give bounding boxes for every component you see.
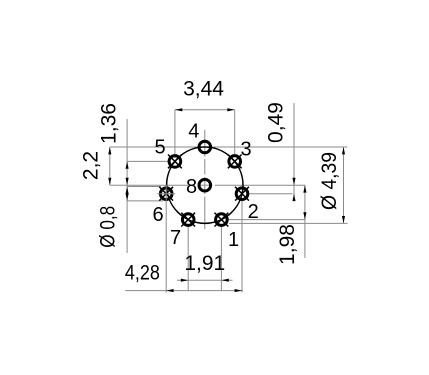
svg-text:2: 2 [248,201,259,223]
wire: vertical dimension line for 1,36 and diameter 0,8 [126,119,128,253]
wire: pin6 top tangent extension [127,186,161,188]
wire: 0,49 vertical dimension line [293,103,295,199]
wire: pin7 vertical extension for 1,91 [187,227,189,291]
pin 4 [199,141,211,153]
wire: vertical main centerline [204,130,206,157]
wire: 3,44 horizontal dimension line [175,109,235,111]
pin 5 [168,155,182,169]
svg-text:4,28: 4,28 [125,262,160,285]
wire: horizontal extension line pin3/5 row left [127,160,170,162]
wire: pin6 vertical extension for 4,28 [165,202,167,293]
svg-text:8: 8 [186,176,197,198]
pin 6 [157,185,175,203]
dimension 1,98 arrows [303,185,306,192]
dimension 0,49 arrows outside [292,178,295,185]
svg-text:0,49: 0,49 [265,102,288,143]
dimension 4,39 arrows [342,147,345,154]
wire: diameter 4,39 vertical dimension line [343,147,345,223]
wire: horizontal extension line pin4 row [110,146,348,148]
svg-text:1: 1 [228,229,239,251]
wire: pin6 bottom tangent extension [127,200,163,202]
svg-text:3,44: 3,44 [183,78,224,101]
dimension 1,36 arrows [126,161,129,168]
svg-text:1,36: 1,36 [98,103,121,144]
wire: pin1/7 row right extension [229,219,306,221]
wire: circle bottom tangent extension [229,222,348,224]
dimension 2,2 arrows [108,147,111,154]
svg-text:Ø 0,8: Ø 0,8 [96,206,119,248]
svg-text:7: 7 [170,227,181,249]
wire: pin2 vertical extension for 4,28 [241,201,243,293]
svg-text:1,91: 1,91 [184,252,225,275]
svg-text:2,2: 2,2 [80,151,103,180]
svg-text:4: 4 [188,121,199,143]
pin 2 [235,187,249,201]
pin 8 center [199,179,211,191]
wire: pin1 vertical extension for 1,91 [220,227,222,291]
wire: horizontal centerline center row [110,184,195,186]
svg-text:6: 6 [152,204,163,226]
wire: 1,91 horizontal dimension line [177,279,233,281]
svg-text:5: 5 [154,137,165,159]
wire: 3,44 left extension line [174,110,176,158]
dimension 3,44 arrows [175,108,182,111]
dimension 4,28 arrows [166,289,173,292]
pin 3 [228,155,242,169]
dimension 1,91 arrows outside [181,279,188,282]
wire: 3,44 right extension line [234,110,236,154]
pin 1 [215,213,229,227]
wire: 1,98 vertical dimension line [304,185,306,258]
svg-text:Ø 4,39: Ø 4,39 [318,152,341,210]
svg-text:3: 3 [240,139,251,161]
node: pin circle diameter 4,39 [167,147,243,223]
wire: vertical dimension line 2,2 [109,147,111,185]
pin 7 [181,213,195,227]
wire: pin2/6 row right extension [249,193,293,195]
dimension 0,8 arrows [126,187,129,194]
svg-text:1,98: 1,98 [276,224,299,265]
wire: 4,28 horizontal dimension line [125,290,243,292]
